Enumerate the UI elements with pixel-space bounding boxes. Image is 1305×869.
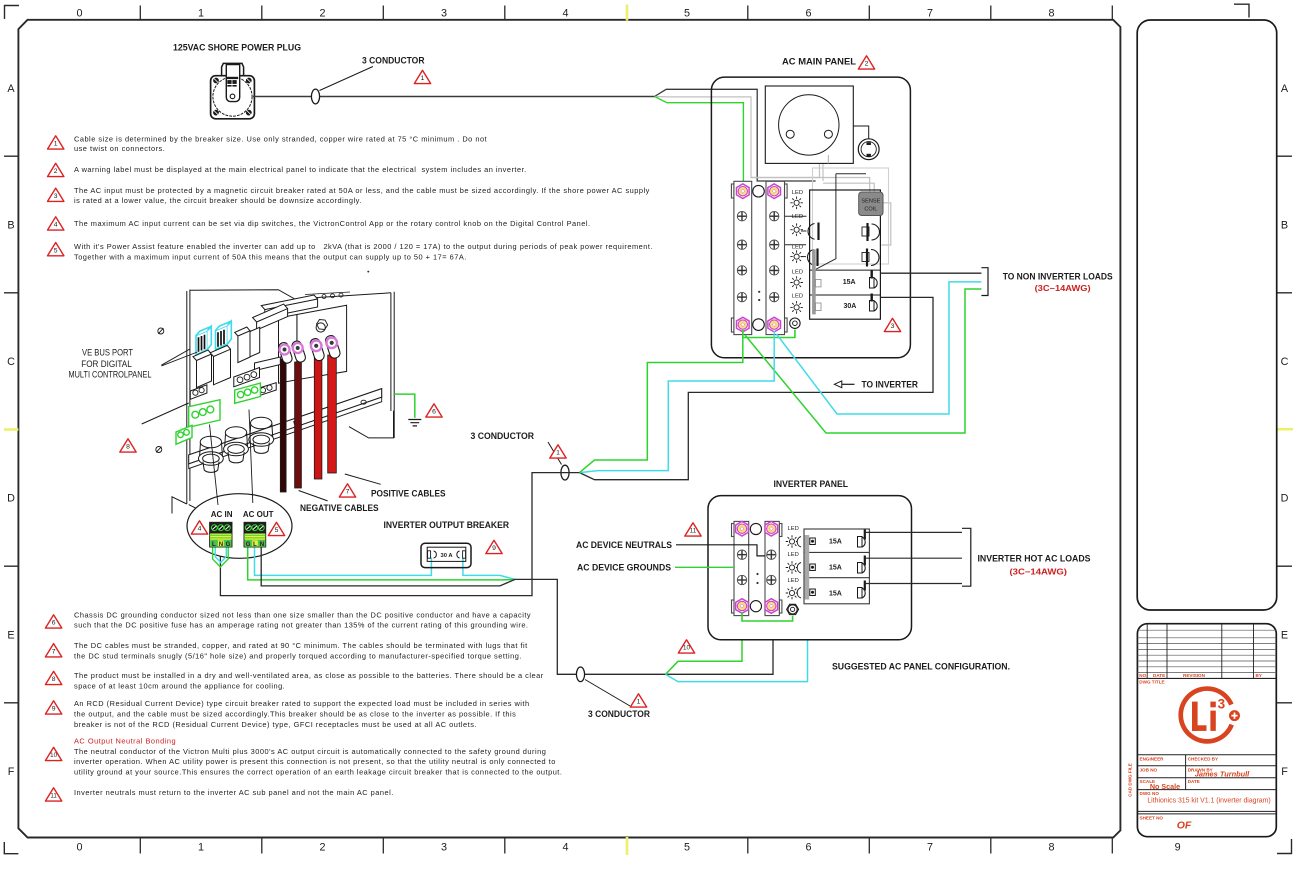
tongue contact marks xyxy=(227,77,238,79)
svg-text:Cable size is determined by th: Cable size is determined by the breaker … xyxy=(74,134,487,143)
svg-text:such that the DC positive fuse: such that the DC positive fuse has an am… xyxy=(74,621,529,630)
svg-text:B: B xyxy=(1281,219,1288,231)
bus stud nuts (magenta) xyxy=(736,521,749,536)
svg-text:3: 3 xyxy=(1218,697,1226,712)
note triangle 3 xyxy=(48,188,64,201)
negative cable 1 xyxy=(280,359,286,492)
wire: ground to inverter (green) xyxy=(580,338,743,473)
svg-text:3: 3 xyxy=(54,193,58,200)
plug screws xyxy=(213,78,252,116)
Li3 logo plus badge xyxy=(1229,710,1240,721)
warning triangle 8 (drawing) xyxy=(120,439,136,452)
svg-text:NEGATIVE CABLES: NEGATIVE CABLES xyxy=(300,503,379,514)
white terminal strip W3 xyxy=(258,383,277,397)
svg-text:AC DEVICE GROUNDS: AC DEVICE GROUNDS xyxy=(577,562,672,573)
svg-text:4: 4 xyxy=(198,526,202,533)
corner bracket top-left xyxy=(5,6,20,20)
corner bracket bottom-left xyxy=(4,842,18,854)
cable gland 3 xyxy=(249,417,274,453)
svg-text:AC Output Neutral Bonding: AC Output Neutral Bonding xyxy=(74,736,176,745)
AC IN terminal block xyxy=(210,522,232,548)
inverter panel enclosure xyxy=(708,496,912,640)
svg-text:9: 9 xyxy=(52,706,56,713)
svg-text:7: 7 xyxy=(346,489,350,496)
ground screw xyxy=(790,318,800,328)
note triangle 6 xyxy=(45,615,61,628)
svg-text:AC OUT: AC OUT xyxy=(243,510,274,519)
corner bracket bottom-right xyxy=(1277,839,1292,854)
svg-text:AC MAIN PANEL: AC MAIN PANEL xyxy=(782,56,856,67)
svg-text:B: B xyxy=(7,219,14,231)
green bond jumper xyxy=(742,612,793,621)
svg-text:No Scale: No Scale xyxy=(1150,782,1180,791)
svg-text:inverter operation. When AC ut: inverter operation. When AC utility powe… xyxy=(74,757,556,766)
title block outline xyxy=(1137,624,1276,837)
svg-text:5: 5 xyxy=(684,842,690,854)
svg-text:4: 4 xyxy=(562,842,568,854)
wires: breaker outputs xyxy=(865,532,962,583)
svg-text:7: 7 xyxy=(927,842,933,854)
warning triangle 7 xyxy=(339,484,355,497)
svg-text:5: 5 xyxy=(275,527,279,534)
breaker toggles xyxy=(858,530,866,599)
wire: neutral split (gray) xyxy=(655,97,820,178)
interior black wiring xyxy=(779,174,866,269)
positive cable 2 xyxy=(328,355,337,473)
svg-text:SENSE: SENSE xyxy=(861,198,880,204)
TO INVERTER arrow annotation xyxy=(842,383,855,385)
svg-text:LED: LED xyxy=(788,578,799,584)
svg-text:N: N xyxy=(219,542,223,548)
bracket: to non inverter loads xyxy=(981,268,988,296)
svg-text:The maximum AC input current c: The maximum AC input current can be set … xyxy=(74,219,591,228)
leader line xyxy=(585,680,630,707)
svg-text:8: 8 xyxy=(126,444,130,451)
note triangle 1 xyxy=(48,136,64,149)
neutral leader xyxy=(676,545,765,556)
wire: bundle to inverter panel cyan xyxy=(666,601,808,682)
AC IN ground chevron (green) xyxy=(213,548,229,568)
corner bracket top-right xyxy=(1234,4,1249,17)
svg-text:5: 5 xyxy=(54,247,58,254)
svg-text:30 A: 30 A xyxy=(440,553,453,559)
svg-text:6: 6 xyxy=(52,620,56,627)
bus terminal screws xyxy=(737,212,746,221)
busbar (diagonal) xyxy=(189,389,382,464)
VE bus label xyxy=(69,348,152,380)
svg-text:8: 8 xyxy=(52,676,56,683)
breaker bus bar (gray) xyxy=(812,249,816,314)
svg-text:6: 6 xyxy=(432,409,436,416)
DIN rail slab xyxy=(255,357,281,371)
chassis screw symbols xyxy=(156,328,164,453)
svg-text:MULTI CONTROLPANEL: MULTI CONTROLPANEL xyxy=(69,369,152,379)
left ruler ticks xyxy=(4,156,18,703)
revision header labels xyxy=(1139,673,1262,684)
cable marker ellipse (lower) xyxy=(576,667,584,682)
svg-text:BY: BY xyxy=(1256,673,1262,678)
AC out terminal strip (green) xyxy=(235,383,261,403)
svg-text:1: 1 xyxy=(198,8,204,20)
wire: receptacle drop (gray) xyxy=(822,164,824,181)
svg-text:9: 9 xyxy=(1175,842,1181,854)
cable marker ellipse xyxy=(311,89,319,104)
svg-text:Together with a maximum input: Together with a maximum input current of… xyxy=(74,252,467,261)
svg-text:2: 2 xyxy=(319,8,325,20)
svg-text:LED: LED xyxy=(788,526,799,532)
svg-text:1: 1 xyxy=(637,699,641,706)
top slabs xyxy=(261,295,317,318)
note triangle 8 xyxy=(45,671,61,684)
svg-text:G: G xyxy=(226,542,231,548)
svg-text:2: 2 xyxy=(319,842,325,854)
svg-text:15A: 15A xyxy=(829,565,842,572)
receptacle face xyxy=(779,95,839,155)
ground screw xyxy=(787,604,799,614)
svg-text:DATE: DATE xyxy=(1188,779,1200,784)
AC main panel enclosure xyxy=(711,77,910,358)
bracket: inverter hot loads xyxy=(962,528,971,586)
negative cable 2 xyxy=(295,362,302,488)
sense coil xyxy=(859,192,883,216)
breaker rail xyxy=(805,535,810,600)
stray dot xyxy=(367,271,369,273)
svg-text:8: 8 xyxy=(1048,8,1054,20)
svg-text:3: 3 xyxy=(441,8,447,20)
svg-text:6: 6 xyxy=(805,8,811,20)
svg-text:10: 10 xyxy=(683,645,690,652)
svg-text:Chassis DC grounding conductor: Chassis DC grounding conductor sized not… xyxy=(74,610,531,619)
wire: hot split to panel (black) xyxy=(655,89,816,181)
svg-text:SUGGESTED AC PANEL CONFIGURATI: SUGGESTED AC PANEL CONFIGURATION. xyxy=(832,661,1010,672)
inverter bus bars xyxy=(732,521,782,615)
cable gland 1 xyxy=(199,436,224,472)
neutral/ground bus bars xyxy=(731,181,787,334)
svg-text:3: 3 xyxy=(441,842,447,854)
svg-text:1: 1 xyxy=(54,141,58,148)
AC IN ground chevron (cyan) xyxy=(215,548,226,563)
svg-text:LED: LED xyxy=(792,190,803,196)
tongue pilot hole xyxy=(230,94,235,99)
wire: receptacle link xyxy=(853,126,868,139)
AC OUT terminal block xyxy=(244,522,266,548)
svg-text:use twist on connectors.: use twist on connectors. xyxy=(74,144,165,153)
warning triangle 1 (middle) xyxy=(550,445,566,458)
svg-text:11: 11 xyxy=(50,793,57,800)
cable lug 2 xyxy=(291,340,307,363)
LED indicators column xyxy=(792,190,803,300)
svg-text:OF: OF xyxy=(1177,820,1192,832)
revision table grid xyxy=(1137,624,1276,679)
leader line xyxy=(548,442,562,465)
svg-text:0: 0 xyxy=(76,8,82,20)
svg-text:VE BUS PORT: VE BUS PORT xyxy=(82,348,134,358)
svg-text:TO INVERTER: TO INVERTER xyxy=(862,379,919,390)
interior gray wiring xyxy=(751,178,891,246)
breaker left terminals xyxy=(797,537,815,599)
svg-text:F: F xyxy=(1281,766,1288,778)
wire: 3 conductor bundle to AC IN xyxy=(220,473,579,596)
cable marker ellipse (mid) xyxy=(561,465,569,480)
wire: 15A feed to non-inverter loads (black) xyxy=(880,272,981,274)
wire: AC OUT ground (green) xyxy=(248,548,515,580)
note triangle 10 xyxy=(45,747,61,760)
svg-text:James Turnbull: James Turnbull xyxy=(1195,769,1250,778)
svg-text:7: 7 xyxy=(927,8,933,20)
svg-text:4: 4 xyxy=(54,222,58,229)
main border chamfered rectangle xyxy=(18,20,1120,838)
svg-text:2: 2 xyxy=(865,61,869,68)
svg-text:D: D xyxy=(7,493,15,505)
ground leader (green) xyxy=(675,566,734,568)
svg-text:the output, and the cable must: the output, and the cable must be sized … xyxy=(74,710,516,719)
svg-text:DWG NO: DWG NO xyxy=(1140,791,1160,796)
port stripes xyxy=(199,330,225,352)
svg-text:E: E xyxy=(7,629,14,641)
svg-text:9: 9 xyxy=(492,545,496,552)
wire: shore power cable xyxy=(253,96,655,98)
plug latch tongue xyxy=(226,65,239,102)
svg-text:JOB NO: JOB NO xyxy=(1140,767,1158,772)
svg-text:15A: 15A xyxy=(829,591,842,598)
svg-text:(3C−14AWG): (3C−14AWG) xyxy=(1035,284,1091,293)
wire: neutral to non-inverter loads (cyan) xyxy=(777,282,982,414)
svg-text:LED: LED xyxy=(792,269,803,275)
note triangle 9 xyxy=(45,701,61,714)
VE bus leader xyxy=(161,352,197,366)
green bond jumper in panel xyxy=(743,330,795,338)
warning triangle 9 (breaker) xyxy=(486,540,502,553)
svg-text:breaker is not of the RCD (Res: breaker is not of the RCD (Residual Curr… xyxy=(74,720,477,729)
svg-text:An RCD (Residual Current Devic: An RCD (Residual Current Device) type ci… xyxy=(74,699,530,708)
svg-text:is rated at a lower value, the: is rated at a lower value, the circuit b… xyxy=(74,196,362,205)
ground symbol xyxy=(408,420,421,426)
svg-text:The AC input must be protected: The AC input must be protected by a magn… xyxy=(74,186,650,195)
wire: AC OUT hot (black) xyxy=(261,548,515,586)
svg-text:The product must be installed: The product must be installed in a dry a… xyxy=(74,671,544,680)
relay contact symbols xyxy=(807,223,879,267)
wire: bundle to inverter panel black xyxy=(585,612,773,674)
bubble pointer lines xyxy=(210,425,219,506)
svg-text:A: A xyxy=(1281,83,1289,95)
warning triangle 6 xyxy=(426,404,442,417)
svg-text:7: 7 xyxy=(52,649,56,656)
svg-text:15A: 15A xyxy=(829,539,842,546)
wire: bundle to inverter panel green xyxy=(666,613,743,674)
wire: neutral to inverter (cyan) xyxy=(580,331,775,473)
svg-text:TO NON INVERTER LOADS: TO NON INVERTER LOADS xyxy=(1003,272,1114,283)
leader line xyxy=(320,67,373,91)
svg-text:1: 1 xyxy=(198,842,204,854)
note triangle 11 xyxy=(45,788,61,801)
bus terminal screws xyxy=(737,550,746,559)
breaker toggles xyxy=(870,271,878,312)
stray dot xyxy=(367,271,369,273)
warning triangle 2 xyxy=(858,56,874,69)
warning triangle 4 xyxy=(191,521,207,534)
svg-text:G: G xyxy=(246,542,251,548)
svg-text:E: E xyxy=(1281,629,1288,641)
inverter chassis (isometric) xyxy=(142,290,395,522)
svg-text:15A: 15A xyxy=(843,279,856,286)
interior gray frame xyxy=(813,168,889,264)
bus dots xyxy=(756,573,758,575)
svg-text:10: 10 xyxy=(50,752,57,759)
LED indicators xyxy=(788,526,799,584)
warning triangle 11 (panel) xyxy=(685,523,701,536)
right blank sheet panel xyxy=(1137,20,1277,610)
breaker block outline xyxy=(810,190,881,319)
svg-text:N: N xyxy=(260,542,264,548)
Li3 logo letters xyxy=(1192,702,1216,731)
svg-text:Lithionics 315 kit V1.1 (inver: Lithionics 315 kit V1.1 (inverter diagra… xyxy=(1147,798,1270,805)
svg-text:8: 8 xyxy=(1048,842,1054,854)
svg-text:(3C−14AWG): (3C−14AWG) xyxy=(1010,567,1068,576)
svg-text:LED: LED xyxy=(792,244,803,250)
detail bubble ellipse xyxy=(187,494,292,559)
shore power plug P1 xyxy=(211,63,255,118)
locking receptacle xyxy=(858,139,879,160)
svg-text:REVISION: REVISION xyxy=(1183,673,1206,678)
svg-text:DATE: DATE xyxy=(1153,673,1165,678)
svg-text:F: F xyxy=(8,766,15,778)
ruler numbers top xyxy=(76,8,1054,20)
right ruler ticks xyxy=(1277,156,1292,703)
svg-text:C: C xyxy=(7,356,15,368)
lower table labels xyxy=(1140,756,1219,820)
svg-text:SHEET NO: SHEET NO xyxy=(1140,815,1164,820)
cable lug 4 xyxy=(324,334,341,359)
row letters left xyxy=(7,83,15,778)
inverter output breaker CB1 xyxy=(421,543,471,567)
svg-text:utility ground at your source.: utility ground at your source.This ensur… xyxy=(74,768,562,777)
note triangle 5 xyxy=(48,243,64,256)
vent holes xyxy=(322,295,326,299)
breaker rows xyxy=(804,529,869,604)
duplex receptacle box xyxy=(765,86,853,163)
svg-text:DWG TITLE: DWG TITLE xyxy=(1139,680,1164,685)
svg-text:11: 11 xyxy=(690,528,697,535)
svg-text:AC DEVICE NEUTRALS: AC DEVICE NEUTRALS xyxy=(576,540,673,551)
svg-text:space of at least 10cm around: space of at least 10cm around the applia… xyxy=(74,681,285,690)
top ruler ticks xyxy=(140,6,1112,20)
svg-text:3 CONDUCTOR: 3 CONDUCTOR xyxy=(362,55,425,66)
Li3 logo ring xyxy=(1181,689,1232,742)
svg-text:D: D xyxy=(1281,493,1289,505)
cable gland 2 xyxy=(224,427,249,463)
relay boxes (upper middle) xyxy=(235,327,250,363)
bus centre circles xyxy=(750,523,761,534)
terminal plate (rear) xyxy=(297,305,347,380)
svg-text:With it's Power Assist feature: With it's Power Assist feature enabled t… xyxy=(74,242,653,251)
svg-text:1: 1 xyxy=(421,75,425,82)
leader lines for cables xyxy=(345,474,381,484)
svg-text:LED: LED xyxy=(792,214,803,220)
lower table grid xyxy=(1137,755,1276,814)
note triangle 4 xyxy=(48,217,64,230)
svg-text:FOR DIGITAL: FOR DIGITAL xyxy=(81,359,132,369)
warning triangle 1 (lower) xyxy=(630,694,646,707)
svg-text:ENGINEER: ENGINEER xyxy=(1140,756,1165,761)
warning triangle 3 xyxy=(884,318,900,331)
svg-text:Inverter neutrals must return: Inverter neutrals must return to the inv… xyxy=(74,788,394,797)
svg-text:A: A xyxy=(7,83,15,95)
svg-text:The neutral conductor of the V: The neutral conductor of the Victron Mul… xyxy=(74,747,546,756)
wire: ground split (green) xyxy=(655,97,744,185)
svg-text:NO.: NO. xyxy=(1139,673,1147,678)
svg-text:2: 2 xyxy=(54,168,58,175)
svg-text:LED: LED xyxy=(792,294,803,300)
svg-text:CHECKED BY: CHECKED BY xyxy=(1188,756,1218,761)
svg-text:AC IN: AC IN xyxy=(211,510,233,519)
svg-text:L: L xyxy=(212,542,216,548)
warning triangle 10 (wires) xyxy=(678,640,694,653)
chassis ground wire (green) xyxy=(394,394,415,418)
svg-text:3 CONDUCTOR: 3 CONDUCTOR xyxy=(471,431,535,442)
svg-text:L: L xyxy=(253,542,257,548)
wire: breaker to lower junction (black) xyxy=(515,579,576,674)
svg-text:the DC stud terminals snugly (: the DC stud terminals snugly (5/16" hole… xyxy=(74,651,522,660)
ruler numbers bottom xyxy=(76,842,1180,854)
svg-text:3: 3 xyxy=(891,323,895,330)
white terminal strip W2 xyxy=(234,368,260,387)
bottom ruler ticks xyxy=(140,838,1112,854)
svg-text:C: C xyxy=(1281,356,1289,368)
svg-text:COIL: COIL xyxy=(864,207,877,213)
note triangle 7 xyxy=(45,644,61,657)
cable lug 3 xyxy=(309,337,325,361)
svg-text:3 CONDUCTOR: 3 CONDUCTOR xyxy=(588,709,650,720)
relay boxes (left) xyxy=(193,350,212,388)
svg-text:1: 1 xyxy=(556,450,560,457)
bus centre circles xyxy=(753,185,765,197)
wire: 30A feed to inverter (black) xyxy=(580,297,934,479)
svg-text:4: 4 xyxy=(562,8,568,20)
white terminal strip W1 xyxy=(190,385,207,400)
positive cable 1 xyxy=(314,358,322,479)
wire: ground to non-inverter loads (green) xyxy=(745,289,981,433)
warning triangle 1 (top) xyxy=(414,70,430,83)
cable lug 1 xyxy=(278,341,294,364)
bus stud nuts (magenta) xyxy=(737,184,750,199)
svg-text:POSITIVE CABLES: POSITIVE CABLES xyxy=(371,489,446,500)
svg-text:INVERTER OUTPUT BREAKER: INVERTER OUTPUT BREAKER xyxy=(384,520,510,531)
svg-text:CAD DWG FILE: CAD DWG FILE xyxy=(1128,763,1133,797)
bus dots xyxy=(758,291,760,293)
AC in terminal strip (green) xyxy=(176,400,220,445)
VE bus ports (cyan highlighted) xyxy=(196,321,231,355)
svg-text:LED: LED xyxy=(788,552,799,558)
svg-text:The DC cables must be stranded: The DC cables must be stranded, copper, … xyxy=(74,641,528,650)
svg-text:6: 6 xyxy=(805,842,811,854)
svg-text:INVERTER PANEL: INVERTER PANEL xyxy=(774,479,849,490)
plate bolt xyxy=(316,323,325,332)
row letters right xyxy=(1281,83,1289,778)
svg-text:INVERTER HOT AC LOADS: INVERTER HOT AC LOADS xyxy=(978,554,1092,565)
note triangle 2 xyxy=(48,163,64,176)
svg-text:0: 0 xyxy=(76,842,82,854)
svg-text:30A: 30A xyxy=(844,303,857,310)
svg-text:125VAC SHORE POWER PLUG: 125VAC SHORE POWER PLUG xyxy=(173,43,301,54)
svg-text:A warning label must be displa: A warning label must be displayed at the… xyxy=(74,165,527,174)
svg-text:5: 5 xyxy=(684,8,690,20)
warning triangle 5 xyxy=(268,522,284,535)
wire: AC OUT neutral (cyan) xyxy=(255,548,432,576)
